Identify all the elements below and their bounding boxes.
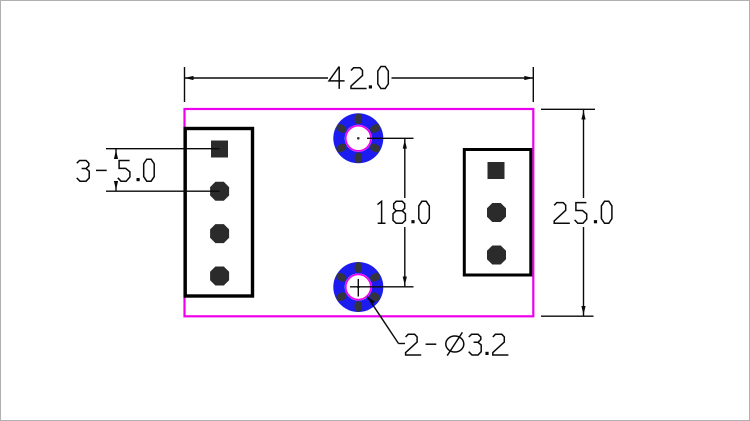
- dimension 18.0 extension line bottom (from hole H2): [367, 286, 414, 288]
- dimension 3-5.0 pointer line to pad row 2: [106, 190, 220, 192]
- connector J1 body outline: [185, 129, 252, 297]
- dimension 3-5.0 arrow down: [114, 181, 118, 190]
- dimension text 42.0: [329, 67, 388, 89]
- dimension 42.0 arrow right: [524, 76, 533, 80]
- dimension 3-5.0 line upper stub: [115, 149, 117, 158]
- dimension 3-5.0 line lower stub: [115, 182, 117, 191]
- dimension 25.0 arrow top: [581, 111, 585, 120]
- dimension 42.0 extension line right: [532, 67, 534, 102]
- dimension 25.0 line upper segment: [583, 109, 585, 198]
- PCB board outline (magenta): [185, 109, 534, 316]
- connector J2 pad 3: [487, 246, 506, 265]
- dimension 25.0 arrow bottom: [581, 306, 585, 315]
- leader arrowhead: [366, 295, 375, 304]
- dimension 25.0 line lower segment: [583, 227, 585, 316]
- dimension 42.0 line right segment: [392, 77, 534, 79]
- connector J1 pad 1 (square): [211, 141, 228, 158]
- dimension 3-5.0 pointer line to pad row 1: [106, 148, 220, 150]
- connector J1 pad 2: [210, 182, 229, 201]
- crosshair centerline of hole H2: [350, 279, 367, 297]
- dimension 25.0 extension line top: [541, 108, 595, 110]
- dimension text 18.0: [378, 201, 430, 223]
- dimension 42.0 line left segment: [185, 77, 329, 79]
- dimension 25.0 extension line bottom: [541, 315, 594, 317]
- connector J2 pad 1 (square): [488, 162, 505, 179]
- dimension 18.0 arrow top: [403, 140, 407, 149]
- connector J2 body outline: [464, 150, 531, 276]
- mounting hole H2 (bottom, 3.2mm): [333, 262, 383, 312]
- dimension 18.0 extension line top (from hole H1): [367, 137, 414, 139]
- connector J2 pad 2: [487, 203, 506, 222]
- dimension 42.0 arrow left: [185, 76, 194, 80]
- connector J1 pad 3: [210, 224, 229, 243]
- dimension text 25.0: [554, 201, 612, 223]
- connector J1 pad 4: [210, 267, 229, 286]
- dimension 3-5.0 arrow up: [114, 150, 118, 159]
- dimension 18.0 line upper segment: [404, 138, 406, 198]
- leader text 2-dia3.2: [406, 332, 509, 355]
- dimension 42.0 extension line left: [184, 67, 186, 102]
- mounting hole H1 (top, 3.2mm): [333, 113, 383, 163]
- dimension 18.0 arrow bottom: [403, 277, 407, 286]
- dimension 18.0 line lower segment: [404, 227, 406, 287]
- dimension text 3-5.0: [77, 159, 155, 181]
- leader line for hole callout: [367, 297, 405, 344]
